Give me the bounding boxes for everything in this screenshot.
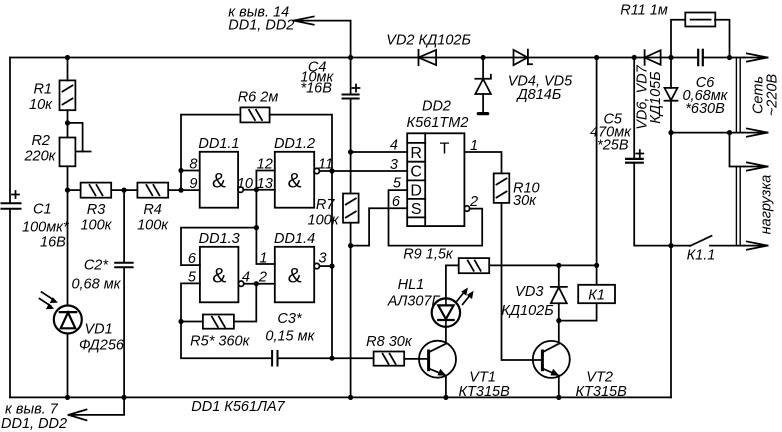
wire pin12 tie (256, 171, 274, 265)
node pin8 tie junction (178, 168, 183, 173)
label R3 (80, 202, 112, 234)
wire feedback to DD1.3 pin6 (181, 228, 256, 266)
capacitor C4 (343, 58, 360, 99)
node net3/C3 junction (329, 356, 334, 361)
svg-text:T: T (440, 141, 450, 158)
label R1 (29, 82, 53, 114)
wire VT1 emitter to bus (445, 376, 447, 398)
wire VT2 emitter to bus (558, 376, 560, 398)
svg-text:АЛ307Г: АЛ307Г (387, 293, 441, 309)
wire R8 to VT1 base (404, 358, 428, 360)
wire R7 bottom to bus (350, 223, 352, 398)
svg-text:&: & (287, 170, 301, 193)
svg-text:DD1.4: DD1.4 (274, 231, 315, 247)
svg-text:R3: R3 (87, 202, 106, 218)
transistor VT1 (419, 341, 456, 378)
arrow к выв. 14 (294, 17, 351, 58)
svg-text:30к: 30к (513, 193, 537, 209)
label DD2 (407, 99, 469, 132)
svg-text:VD3: VD3 (515, 284, 543, 300)
node rail/VD4 junction (481, 55, 486, 60)
svg-text:100к: 100к (137, 218, 169, 234)
node R1/R2/wiper junction (65, 120, 70, 125)
wire R9 net horizontal (489, 264, 596, 266)
svg-text:*25В: *25В (597, 137, 629, 153)
svg-text:6: 6 (392, 194, 401, 210)
resistor R10 (494, 173, 510, 203)
diode VD6 branch (665, 58, 678, 398)
svg-text:8: 8 (189, 157, 197, 173)
svg-text:DD1 К561ЛА7: DD1 К561ЛА7 (191, 399, 285, 415)
label C6 (682, 75, 728, 117)
flip-flop DD2 (407, 133, 469, 226)
node C4/R7/pinR junction (348, 149, 353, 154)
capacitor C6 (698, 50, 703, 65)
node load tap junction (727, 130, 732, 135)
svg-text:R8 30к: R8 30к (366, 334, 413, 350)
svg-text:5: 5 (188, 270, 197, 286)
resistor R3 (81, 183, 112, 198)
svg-text:10: 10 (237, 176, 253, 192)
connector double lines mains (736, 58, 740, 133)
wire R6 right lead down to net C (270, 115, 332, 171)
svg-text:Д814Б: Д814Б (515, 87, 561, 103)
svg-text:&: & (288, 265, 302, 288)
node VT1/bus junction (443, 395, 448, 400)
svg-text:C1: C1 (33, 202, 52, 218)
svg-text:К561ТМ2: К561ТМ2 (407, 115, 469, 131)
label C1 (22, 202, 70, 251)
wire R3 left lead (68, 189, 81, 191)
label HL1 (387, 277, 441, 309)
svg-text:0,15 мк: 0,15 мк (265, 329, 315, 345)
svg-text:&: & (212, 265, 226, 288)
wire supply vertical to relay (596, 58, 598, 266)
svg-text:HL1: HL1 (398, 277, 425, 293)
wire left vertical branch (C1 branch) (9, 58, 11, 398)
svg-text:4: 4 (390, 138, 398, 154)
wire R4 right lead to DD1.1 (168, 189, 200, 191)
wire pin D (5) loop from output 2 (389, 190, 483, 246)
diode VD2 (419, 50, 437, 65)
resistor R2 (trimmer) (60, 123, 91, 166)
node net3 junction (329, 264, 334, 269)
wire to pin 7 arrow (70, 397, 124, 415)
terminal arrow load 2 (744, 242, 768, 250)
node R7/S-wire junction (348, 243, 353, 248)
svg-text:R7: R7 (316, 197, 335, 213)
wire R1 top lead (67, 58, 69, 81)
node rail/R1 junction (65, 55, 70, 60)
resistor R8 (374, 352, 405, 366)
LED HL1 (432, 288, 474, 328)
svg-text:К1.1: К1.1 (687, 248, 716, 264)
node R5 left junction (178, 319, 183, 324)
wire output 1 to R10 (464, 152, 501, 173)
wire VD1 bottom lead (67, 335, 69, 398)
label VT1 (459, 370, 511, 401)
svg-text:R2: R2 (31, 133, 50, 149)
node rail/K1-supply junction (594, 55, 599, 60)
label к выв. 7 (1, 402, 67, 432)
node net10/feedback junction (254, 225, 259, 230)
label VT2 (576, 370, 628, 401)
svg-text:10к: 10к (29, 97, 53, 113)
node rail/R11 right junction (727, 55, 732, 60)
svg-text:*16В: *16В (300, 81, 332, 97)
wire C2 branch vertical (123, 190, 125, 397)
svg-text:VD1: VD1 (85, 322, 113, 338)
svg-text:КД105Б: КД105Б (648, 71, 664, 123)
node rail/VD6/R11 junction (668, 55, 673, 60)
resistor R11 bypass (671, 13, 730, 58)
svg-text:1: 1 (259, 251, 267, 267)
label R2 (23, 133, 56, 165)
wire R3-R4 lead (111, 189, 137, 191)
label Сеть 220В rotated (751, 74, 781, 117)
svg-text:R4: R4 (143, 202, 162, 218)
arrow к выв. 7 (69, 410, 87, 421)
label C3 (265, 311, 315, 345)
wire output 3 lead (320, 265, 333, 267)
resistor R5 (203, 315, 234, 329)
svg-text:R11 1м: R11 1м (620, 3, 668, 19)
resistor R6 (240, 107, 269, 122)
svg-text:DD1.3: DD1.3 (199, 231, 240, 247)
svg-text:R6 2м: R6 2м (238, 90, 279, 106)
svg-text:C: C (410, 164, 422, 181)
resistor R7 (343, 194, 359, 223)
node VD3 bottom junction (556, 318, 561, 323)
node R2/R3 junction (65, 188, 70, 193)
svg-text:DD1, DD2: DD1, DD2 (1, 416, 67, 432)
zener VD5 (514, 50, 533, 66)
wire load terminal 1 (730, 133, 745, 167)
node K1.1/common junction (668, 243, 673, 248)
node rail/C5 junction (632, 55, 637, 60)
svg-text:К1: К1 (588, 288, 605, 304)
capacitor C5 (626, 58, 671, 246)
label VD1 (79, 322, 125, 354)
wire R10 to VT2 base (502, 203, 543, 360)
wire HL1 to VT1 collector (445, 327, 447, 343)
node K1 top junction (594, 263, 599, 268)
svg-text:R1: R1 (33, 82, 52, 98)
node VD6/mains2 junction (668, 130, 673, 135)
terminal arrow mains 1 (744, 53, 768, 61)
zener VD4 branch (475, 58, 491, 114)
svg-text:3: 3 (390, 157, 398, 173)
svg-text:КТ315В: КТ315В (576, 384, 628, 400)
terminal arrow mains 2 (744, 129, 768, 137)
node VD1/bus junction (65, 395, 70, 400)
svg-text:R9 1,5к: R9 1,5к (403, 247, 454, 263)
svg-text:100мк*: 100мк* (22, 220, 70, 236)
photodiode VD1 (40, 292, 82, 334)
svg-text:2: 2 (258, 270, 267, 286)
svg-text:VD2 КД102Б: VD2 КД102Б (386, 33, 471, 49)
label VD4 VD5 (508, 74, 573, 104)
resistor R9 (459, 258, 490, 273)
wire R1-R2 lead (67, 110, 69, 137)
svg-text:100к: 100к (80, 218, 112, 234)
svg-text:КД102Б: КД102Б (501, 303, 553, 319)
node net C 4-way junction (329, 168, 334, 173)
svg-text:D: D (410, 182, 422, 199)
wire C4 to R7 vertical (350, 99, 352, 194)
svg-text:C2*: C2* (84, 258, 110, 274)
wire pin S (6) loop (351, 208, 408, 245)
svg-text:13: 13 (257, 176, 273, 192)
label R4 (137, 202, 169, 234)
connector double lines load (736, 167, 740, 246)
wire pin R (4) (351, 151, 408, 153)
svg-text:~220В: ~220В (765, 74, 781, 117)
node net4/R5 junction (254, 281, 259, 286)
label R7 (308, 197, 340, 229)
wire output 4 to DD1.4 pin2 (244, 283, 275, 285)
capacitor C3 (272, 351, 277, 366)
op-amp gate DD1.3 (200, 247, 244, 302)
wire R2 bottom lead (67, 166, 69, 305)
svg-text:S: S (411, 201, 422, 218)
wire bottom common bus (10, 396, 671, 398)
transistor VT2 (533, 341, 570, 378)
capacitor C1 (2, 191, 21, 209)
op-amp gate DD1.1 (200, 152, 244, 208)
wire mains terminal 2 (671, 132, 744, 134)
resistor R1 (60, 80, 76, 110)
wire R5 leads (181, 284, 256, 322)
svg-text:1: 1 (470, 138, 478, 154)
wire pins 8/9 tie and R6 feedback line (181, 115, 240, 191)
svg-text:12: 12 (257, 157, 273, 173)
label к выв. 14 (228, 5, 294, 34)
svg-text:0,68 мк: 0,68 мк (71, 277, 121, 293)
svg-text:DD2: DD2 (422, 99, 451, 115)
node pin9/R4 junction (178, 188, 183, 193)
relay coil K1 (559, 265, 615, 320)
svg-text:DD1.2: DD1.2 (274, 136, 315, 152)
svg-text:ФД256: ФД256 (79, 338, 125, 354)
svg-text:220к: 220к (23, 149, 56, 165)
diode VD7 (645, 50, 661, 65)
terminal arrow load 1 (744, 162, 768, 170)
label C2 (71, 258, 121, 293)
svg-text:16В: 16В (40, 235, 66, 251)
node VD3 top junction (556, 263, 561, 268)
svg-text:DD1.1: DD1.1 (198, 136, 239, 152)
node net10 junction (254, 187, 259, 192)
wire output 11 to DD2 pin C (320, 170, 408, 172)
svg-text:5: 5 (393, 176, 402, 192)
svg-text:нагрузка: нагрузка (759, 175, 775, 235)
svg-text:100к: 100к (308, 213, 340, 229)
wire DD1.3 pin5 branch (181, 283, 272, 358)
svg-text:*630В: *630В (685, 101, 725, 117)
svg-text:R5* 360к: R5* 360к (190, 334, 250, 350)
label R10 (513, 181, 540, 210)
label C5 (590, 112, 632, 154)
op-amp gate DD1.4 (275, 247, 320, 302)
svg-text:КТ315В: КТ315В (459, 384, 511, 400)
resistor R4 (137, 183, 168, 198)
svg-text:R: R (410, 145, 422, 162)
svg-text:6: 6 (188, 251, 197, 267)
node C2/bus junction (122, 395, 127, 400)
switch contact K1.1 (671, 236, 744, 246)
wire to VT2 collector (558, 321, 560, 343)
wire C3 right to R8 (278, 357, 374, 359)
capacitor C2 (115, 263, 132, 268)
node R3/R4/C2 junction (122, 188, 127, 193)
label VD3 (501, 284, 553, 319)
label VD6 VD7 rotated (635, 64, 665, 129)
svg-text:&: & (212, 170, 226, 193)
svg-text:11: 11 (318, 157, 333, 173)
diode VD3 (551, 265, 567, 320)
wire top supply rail (10, 57, 744, 59)
wire output 10 to DD1.2 (243, 189, 274, 191)
node R7/bus junction (348, 395, 353, 400)
svg-text:DD1, DD2: DD1, DD2 (228, 18, 294, 34)
wire R9 left lead to HL1 (446, 265, 459, 299)
wire net3 vertical (331, 171, 333, 358)
label C4 (300, 60, 334, 97)
svg-text:9: 9 (189, 176, 197, 192)
svg-text:4: 4 (242, 270, 250, 286)
op-amp gate DD1.2 (275, 152, 320, 208)
node VT2/bus junction (556, 395, 561, 400)
svg-text:C3*: C3* (277, 311, 303, 327)
node rail/C4 junction (348, 55, 353, 60)
svg-text:2: 2 (469, 194, 478, 210)
svg-text:3: 3 (319, 251, 327, 267)
